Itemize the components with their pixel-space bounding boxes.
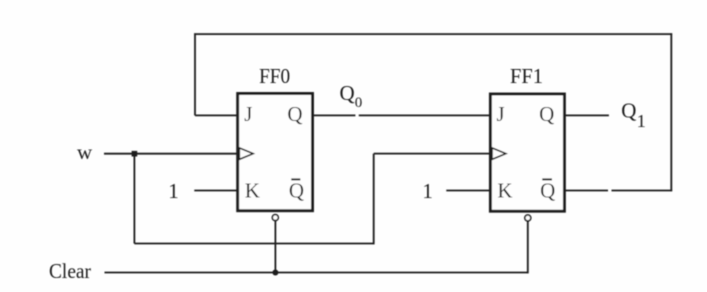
wire: FF1 Q-bar to feedback vertical segment bbox=[612, 190, 673, 192]
svg-text:Q: Q bbox=[540, 178, 555, 202]
svg-text:K: K bbox=[245, 178, 260, 202]
wire: net Q0, segment into FF1 J input bbox=[359, 114, 491, 116]
svg-text:0: 0 bbox=[355, 95, 363, 111]
wire: FF0 clear input vertical bbox=[274, 221, 276, 273]
flip-flop FF1 body bbox=[490, 94, 564, 211]
junction: Clear to FF0 clear input bbox=[272, 270, 278, 276]
svg-text:w: w bbox=[77, 140, 93, 164]
svg-text:K: K bbox=[497, 178, 512, 202]
svg-text:Q: Q bbox=[289, 178, 304, 202]
pin label Q-bar of FF0 bbox=[289, 178, 304, 202]
active-low clear bubble FF0 bbox=[272, 215, 278, 221]
wire: clock branch into FF1 clock pin bbox=[374, 153, 491, 155]
wire: feedback net Q1-bar to J0, top horizontal run bbox=[194, 33, 672, 35]
svg-text:J: J bbox=[497, 102, 505, 126]
wire: clock branch vertical drop bbox=[133, 154, 135, 244]
svg-text:Q: Q bbox=[340, 81, 355, 105]
svg-text:FF0: FF0 bbox=[259, 64, 290, 88]
svg-text:1: 1 bbox=[637, 111, 646, 131]
clock input triangle FF1 bbox=[492, 148, 506, 160]
node label Q1 bbox=[621, 99, 646, 132]
wire: net Q0, FF0 Q output segment bbox=[313, 114, 356, 116]
svg-text:FF1: FF1 bbox=[510, 64, 543, 88]
svg-text:Clear: Clear bbox=[49, 259, 91, 283]
wire: constant 1 to K of FF1 bbox=[446, 190, 490, 192]
wire: J0 input horizontal bbox=[195, 114, 238, 116]
wire: clock branch bottom horizontal run bbox=[134, 243, 373, 245]
clock input triangle FF0 bbox=[239, 148, 253, 160]
wire: FF1 clear input vertical bbox=[527, 221, 529, 274]
svg-text:Q: Q bbox=[539, 102, 554, 126]
svg-text:1: 1 bbox=[422, 179, 433, 203]
wire: constant 1 to K of FF0 bbox=[194, 190, 237, 192]
wire: w input bbox=[104, 153, 238, 155]
flip-flop FF0 body bbox=[238, 94, 313, 211]
svg-text:Q: Q bbox=[287, 102, 302, 126]
wire: FF1 Q-bar output segment bbox=[565, 190, 609, 192]
svg-text:1: 1 bbox=[168, 179, 179, 203]
svg-text:Q: Q bbox=[621, 99, 636, 123]
wire: feedback net, left vertical drop to J0 bbox=[194, 33, 196, 115]
pin label Q-bar of FF1 bbox=[540, 178, 555, 202]
wire: feedback net, right vertical from Q1-bar bbox=[670, 33, 672, 191]
wire: Clear input run bbox=[105, 272, 528, 274]
node label Q0 bbox=[340, 81, 363, 111]
junction: w wire to FF1 clock branch bbox=[132, 151, 138, 157]
active-low clear bubble FF1 bbox=[525, 215, 531, 221]
wire: clock branch vertical rise bbox=[373, 154, 375, 245]
wire: FF1 Q output to Q1 bbox=[565, 114, 609, 116]
svg-text:J: J bbox=[244, 102, 252, 126]
